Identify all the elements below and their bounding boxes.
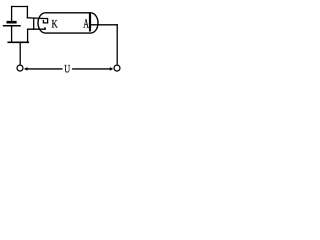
svg-text:K: K <box>52 19 59 31</box>
svg-text:U: U <box>64 61 70 75</box>
wire top horizontal from battery to tube drop <box>12 6 28 8</box>
svg-text:A: A <box>83 16 89 30</box>
wire junction bar horizontal <box>8 41 28 43</box>
node left terminal circle <box>17 65 23 71</box>
battery B1 short thick plate (negative) <box>8 21 16 24</box>
wire drop from top wire to heater upper lead <box>26 7 28 18</box>
tube envelope (oval) <box>38 13 98 33</box>
wire stem down to left terminal <box>19 43 21 64</box>
wire battery bottom lead vertical <box>11 27 13 42</box>
arrowhead pointing right at right terminal <box>110 67 114 71</box>
arrowhead pointing left at left terminal <box>24 67 28 71</box>
wire heater return lead end tick <box>44 28 46 29</box>
battery B1 long thin plate (positive) <box>4 25 20 27</box>
wire right riser down <box>116 25 118 65</box>
wire riser from junction bar up to heater return lead <box>27 29 29 42</box>
wire heater upper lead into tube <box>27 17 43 20</box>
wire anode lead to right <box>91 24 117 26</box>
circuit schematic: vacuum diode tube with cathode K, anode A, battery, applied voltage U <box>0 0 128 82</box>
wire U arrow line left segment <box>27 68 62 70</box>
wire drop from upper lead down to heater return lead <box>33 18 35 29</box>
wire left vertical battery top lead <box>11 7 13 22</box>
wire U arrow line right segment <box>73 68 110 70</box>
heater filament loop of cathode K <box>43 19 48 23</box>
anode A plate bar <box>89 15 91 31</box>
node right terminal circle <box>114 65 120 71</box>
wire heater return lead into tube <box>28 28 46 30</box>
